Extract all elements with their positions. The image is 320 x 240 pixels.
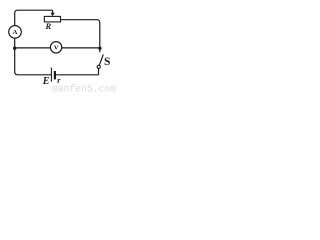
battery E short plate — [54, 71, 56, 79]
wire bottom right of battery — [55, 74, 99, 76]
svg-text:R: R — [45, 21, 52, 31]
wire top-left corner and left vertical upper segment — [15, 10, 53, 25]
node left junction dot — [13, 47, 16, 50]
switch S blade — [99, 54, 103, 65]
svg-text:A: A — [13, 29, 18, 36]
wire resistor right lead — [61, 19, 98, 21]
svg-text:manfen5.com: manfen5.com — [52, 83, 116, 93]
node right junction dot — [98, 47, 101, 50]
svg-text:V: V — [54, 44, 59, 51]
rheostat slider arrowhead — [51, 13, 55, 17]
wire switch riser — [98, 68, 100, 74]
voltmeter V1 body — [50, 42, 61, 53]
wire slider drop — [52, 10, 54, 13]
wire top-right corner and right vertical (switch fixed contact) — [97, 20, 100, 53]
ammeter A1 body — [9, 26, 22, 39]
resistor R1 box — [44, 16, 60, 22]
wire voltmeter branch left — [15, 47, 51, 49]
wire bottom-left corner and bottom wire left of battery — [15, 72, 52, 75]
wire voltmeter branch right — [62, 47, 100, 49]
svg-text:E: E — [42, 76, 50, 87]
svg-text:S: S — [104, 56, 110, 68]
wire left vertical lower segment — [14, 38, 16, 72]
switch S pivot — [97, 65, 100, 68]
battery E long plate — [50, 68, 52, 82]
